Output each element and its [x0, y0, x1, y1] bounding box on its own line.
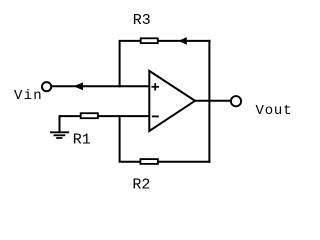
terminal Vin	[42, 82, 51, 91]
wire R1 to inverting input	[98, 115, 150, 117]
resistor R3	[141, 38, 158, 43]
wire bottom feedback right segment	[158, 161, 211, 163]
arrow on Vin wire (pointing left)	[74, 82, 84, 90]
wire bottom feedback left segment	[119, 161, 141, 163]
terminal Vout	[231, 96, 241, 106]
wire top feedback right segment	[158, 40, 211, 42]
wire op-amp output	[195, 100, 231, 102]
svg-text:R3: R3	[133, 12, 151, 29]
resistor R1	[81, 113, 98, 118]
svg-text:R2: R2	[132, 176, 150, 193]
svg-text:R1: R1	[73, 131, 91, 148]
wire ground to R1	[59, 115, 81, 117]
op-amp + pin label	[152, 86, 160, 88]
arrow on top feedback wire (pointing left)	[179, 37, 187, 45]
ground	[59, 115, 61, 132]
wire top feedback left segment	[119, 40, 141, 42]
svg-text:Vout: Vout	[256, 103, 293, 119]
wire right vertical (output to feedback)	[208, 40, 210, 163]
op-amp U1	[149, 71, 195, 131]
node A junction vertical (feedback top-left drop)	[119, 41, 121, 87]
resistor R2	[140, 159, 158, 164]
wire Vin to non-inverting input	[52, 85, 150, 87]
node B junction vertical (feedback bottom-left drop)	[119, 115, 121, 162]
op-amp - pin label	[152, 115, 159, 117]
svg-text:Vin: Vin	[14, 88, 43, 104]
